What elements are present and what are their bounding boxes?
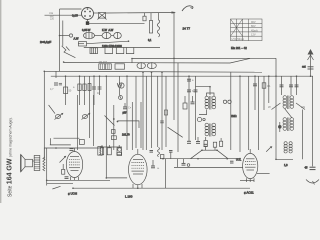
vert x56 [55,71,57,78]
resistor small top [143,16,146,21]
bus y180 [47,179,110,181]
dial pointer curl [182,6,193,11]
earth drop wire [312,76,314,166]
wire antenna chain [60,35,70,37]
coil A.W2 [114,32,122,38]
cap pair on x189 [187,140,191,143]
svg-text:MF 468: MF 468 [99,61,108,64]
svg-text:0,05·W: 0,05·W [82,28,91,32]
pot W squiggle [117,76,124,95]
wire lamp to top rail [94,12,99,14]
svg-text:ant: ant [302,65,306,69]
wire y24 [88,24,145,25]
svg-text:W: W [268,105,271,109]
vert x174 lower [173,58,175,120]
wire y167.4 cathode [174,166,243,168]
svg-text:g UCH: g UCH [68,192,77,196]
vert x166 [165,76,167,147]
wire y58.5 [132,57,276,59]
wire right of V3 [257,173,270,175]
vert x258 [257,76,259,150]
vert x151 [151,72,153,148]
box c1 [111,130,115,134]
osc connecting cross wires [285,109,292,118]
arrowhead top rail [172,11,177,13]
svg-text:g AC11: g AC11 [244,191,254,195]
cap x65 [64,76,72,105]
wire x132 T [131,59,133,63]
coil stack mid [158,148,160,157]
box row A [90,48,98,54]
osc cap dot [278,122,282,132]
cap on y147.5 wire [70,149,74,151]
tube V3 [243,149,258,182]
oval B 2 [147,63,156,69]
wire right of coil [46,148,48,186]
wire x106 [105,76,107,156]
wire y138 [54,137,80,139]
wire vertical x174 [173,13,175,59]
vert x177 stub [176,159,178,168]
vert x276 [275,58,277,160]
coil vertical x158 [157,13,159,37]
vert x146.3 [145,76,147,150]
wire y41 [78,43,84,45]
svg-text:80V: 80V [251,24,256,28]
mains label block [49,12,55,20]
box y140 [79,140,84,145]
vert x113.8 [113,105,115,150]
cap x99 [97,76,102,95]
cap x296 [295,76,299,95]
svg-text:C×: C× [128,107,132,110]
wire lamp down [87,20,89,22]
V1 bottom switch [52,186,60,189]
svg-text:K.W A.W: K.W A.W [102,28,114,32]
tube V1 [66,148,82,180]
svg-text:4,7: 4,7 [50,88,54,91]
svg-text:101.79: 101.79 [122,134,130,137]
IF transformer 1 lower [205,123,216,136]
hook tick [313,181,315,185]
field coil zigzag [43,157,45,171]
svg-text:2MΩ: 2MΩ [231,114,237,118]
speaker [21,155,34,172]
trimmer 2 [82,113,91,120]
socket dots mid [197,117,205,121]
antenna mast [308,49,314,76]
bus y76.3 [51,75,313,77]
U-cap 3 [126,48,134,54]
wire right drop x144 [144,13,146,17]
wire top heater upper [60,8,82,10]
title Seite 164 GW (ohne magischem Auge) [7,117,14,197]
antenna cap [308,67,314,69]
vert x240 [239,76,241,152]
band cluster cap [123,103,132,110]
resistor box row 2 [107,145,111,155]
scale lamp box [98,13,107,20]
vert x249 [248,76,250,150]
svg-text:Ein 201 ~ 42: Ein 201 ~ 42 [231,46,247,50]
diagonal wire to IF [168,127,183,137]
band switch diagonal 2 [105,116,115,126]
bus y188 [73,187,250,189]
cap x281 [280,76,284,95]
lamp pins [84,11,91,17]
vert x157.7 [157,76,159,147]
oval B 1 [137,63,145,69]
diag near V3 [266,146,272,152]
wire left boundary top [59,9,61,71]
switch contacts [66,47,70,51]
band switch LW diagonal [296,103,305,110]
cap x84 [73,76,86,105]
svg-text:220: 220 [50,17,55,20]
vert x93 [93,95,95,146]
wire rowB rise to y58.5 [230,58,250,63]
wire y145 [50,144,71,146]
tube V2 [129,149,148,188]
wire top little row [100,146,122,148]
row A wire y47.5 [84,47,160,49]
vert x230.8 [230,72,232,150]
wire x62.8 switch feed [62,21,64,46]
cap x79 [78,76,81,105]
box on y41 wire [79,42,87,46]
IF1 middle leads [199,110,207,115]
bus y71.5 [44,70,262,73]
U-cap 1 [105,48,113,54]
IF transformer 1 upper [205,96,216,110]
junction dot rowB [63,61,65,63]
coil a.W [84,32,95,39]
svg-text:45mA: 45mA [251,28,258,32]
U-cap 2 [116,48,124,54]
wire y158.7 mid [160,158,240,160]
connector node [69,34,72,37]
switch wiper dots [113,118,119,122]
earth hook [306,180,319,184]
plateau box stub [213,142,216,150]
earth cap [310,167,316,169]
dial lamp circle [82,8,94,20]
tuning gang diagonal [49,105,55,114]
svg-text:2×0,1µF: 2×0,1µF [40,40,51,44]
coil K.W [102,32,111,38]
voltage table [231,19,263,41]
plateau cap stub [204,144,208,150]
wire y41 right [87,41,129,44]
cap x94 [92,76,96,105]
cap x291 [289,76,293,95]
wire jog y86.7 [196,87,211,95]
box row B 2 [115,64,125,69]
left bus vertical x44 [43,71,45,160]
table values [232,20,259,41]
vert x136 [135,76,137,148]
cap on x162 [160,121,164,123]
vert x106 low [106,156,127,178]
svg-text:LW: LW [301,105,305,109]
resistor box row 3 [117,145,121,155]
wire y121 [118,121,140,128]
oscillator coil low pair [284,142,292,153]
scan edge left [0,0,1,203]
vert x162 [161,72,163,150]
IF1 top leads [207,93,215,97]
gang frame left side [50,138,52,145]
cap right V2 [151,160,160,170]
svg-text:24 77: 24 77 [183,27,191,31]
dot on y148 [55,147,57,149]
svg-text:UCL: UCL [236,158,242,162]
pin line under V3 [240,179,254,181]
wire after coils [111,35,114,37]
cathode cluster cap [182,159,190,167]
mains switch zigzag [62,46,76,58]
cap near switch [65,177,69,179]
coil comp x100 [98,147,103,156]
cap under lamp [86,21,89,25]
wire between coils [95,35,103,37]
box on x166 [164,110,167,115]
wire LW down [302,110,304,160]
bus y183.5 [47,182,73,184]
caps mid bottom [150,151,173,159]
svg-text:UY1 50mA: UY1 50mA [232,37,245,41]
vert x141 [140,102,142,148]
resistor left V1 [62,164,65,174]
vert x77 [77,95,79,150]
vert x132 [131,102,133,150]
cap pair near V3 [230,161,234,163]
box row B 1 [99,61,112,70]
vert x269 [268,76,270,103]
cap x195.5 [194,76,198,140]
cap chain x189 [187,76,194,140]
wire top rail long [106,12,175,15]
comp left of IF1 [183,96,195,109]
filter cap 4uF [50,83,62,91]
svg-text:12V: 12V [251,33,256,37]
grid trapezoid right diagonal [217,150,228,159]
resistor box row 1 [100,145,103,155]
wire y62.5 row B [64,62,230,65]
box c2 [111,136,116,140]
vert x178 [177,63,179,152]
wire y159 right [276,158,293,160]
cap x255 [253,76,257,110]
wire top heater lower [45,14,82,16]
transistor dot small [119,96,123,100]
band switch MW diagonal [268,103,281,110]
svg-text:1,3: 1,3 [284,163,288,167]
vert x165.5 down [165,159,167,189]
vert x89b [89,105,91,138]
trimmer arrow near V1 [60,156,67,163]
svg-text:90V: 90V [251,20,256,24]
box x221 [220,138,223,146]
socket pair 1 [223,100,231,103]
grid trapezoid left diagonal [191,150,203,159]
vert x127 [126,76,128,150]
plateau dots [201,149,241,159]
vert x143 [142,72,144,150]
trimmer 1 [55,113,64,120]
output transformer [34,156,40,171]
svg-text:L 160: L 160 [125,195,133,199]
IF1 bottom parts [196,137,207,147]
svg-text:Seite 164 GW (ohne magischem A: Seite 164 GW (ohne magischem Auge). [7,117,14,197]
oscillator coil top pair [283,96,294,110]
wire transformer top [44,148,100,157]
small parts under cluster [117,148,122,156]
resistor x89 [88,76,91,105]
svg-text:µW: µW [123,112,127,115]
svg-text:0,05: 0,05 [72,13,78,17]
grid plateau [202,149,217,151]
oscillator coil mid pair [283,118,294,132]
svg-text:A.W: A.W [74,37,79,41]
resistor vertical x151 [149,13,152,33]
box x264 [262,76,271,110]
